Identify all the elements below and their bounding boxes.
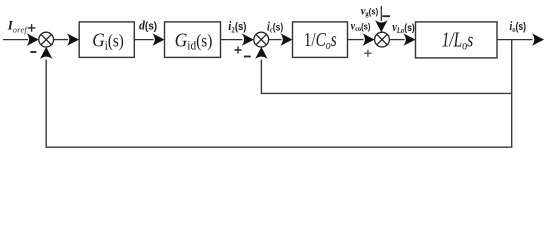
svg-text:io(s): io(s) <box>510 18 527 34</box>
block Gi(s) <box>79 22 134 58</box>
wire: arrow up into junction2 <box>255 47 268 59</box>
wire: inner feedback from tap to junction2 <box>261 60 511 94</box>
block Gid(s) <box>165 22 221 58</box>
summing junction 3 <box>375 32 390 47</box>
wire: junction2 to 1/Cos <box>269 39 282 41</box>
svg-text:d(s): d(s) <box>139 17 157 32</box>
wire: vg input vertical <box>380 6 382 21</box>
wire: Gid to junction2 <box>221 39 243 41</box>
node minus sign junction1 <box>30 51 36 53</box>
wire: arrow up into junction1 <box>40 47 53 59</box>
svg-text:1/Los: 1/Los <box>442 27 474 53</box>
svg-text:vLo(s): vLo(s) <box>392 20 415 35</box>
node minus sign junction3 top <box>382 15 390 17</box>
node plus sign junction2 <box>234 47 241 54</box>
svg-text:vco(s): vco(s) <box>351 18 371 33</box>
wire: junction3 to 1/Los <box>389 39 404 41</box>
wire: input line <box>3 39 28 41</box>
node plus sign junction1 <box>28 24 36 32</box>
summing junction 1 <box>39 32 54 47</box>
svg-text:1/Cos: 1/Cos <box>304 29 337 52</box>
block 1/Cos <box>293 22 348 58</box>
svg-text:ic(s): ic(s) <box>267 19 283 34</box>
wire: output tap down and outer feedback to junction1 <box>46 40 512 148</box>
node minus sign junction2 <box>244 56 251 58</box>
svg-text:Gi(s): Gi(s) <box>92 29 124 52</box>
wire: junction1 to Gi <box>54 39 68 41</box>
wire: 1/Cos to junction3 <box>348 39 364 41</box>
summing junction 2 <box>254 32 269 47</box>
wire: output line <box>497 39 533 41</box>
node plus sign junction3 <box>364 50 371 57</box>
svg-text:vg(s): vg(s) <box>361 3 379 18</box>
wire: Gi to Gid <box>134 39 153 41</box>
svg-text:i2(s): i2(s) <box>228 18 246 34</box>
block 1/Los <box>416 22 498 58</box>
